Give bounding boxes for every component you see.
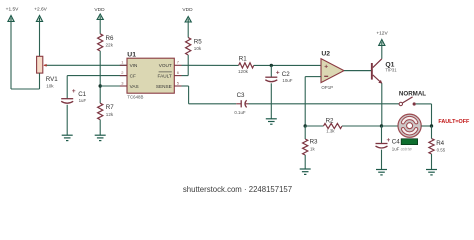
wire C1 to ground	[66, 105, 68, 135]
pin 7 VOUT stub	[174, 64, 181, 66]
capacitor C2	[265, 76, 277, 78]
wire U2 inverting input	[305, 76, 321, 78]
capacitor C3	[236, 103, 241, 105]
svg-text:VDD: VDD	[94, 7, 105, 13]
node R2/R3 junction	[304, 124, 307, 127]
svg-text:0.55: 0.55	[437, 148, 446, 153]
svg-text:U2: U2	[321, 50, 330, 57]
svg-text:R4: R4	[436, 140, 444, 147]
wire R2 to emitter node	[342, 125, 382, 127]
wire Q1 emitter down	[381, 83, 383, 126]
wire R5 to FAULT	[187, 55, 189, 76]
svg-text:TC648B: TC648B	[127, 95, 143, 100]
resistor R5	[186, 38, 191, 56]
svg-text:shutterstock.com · 2248157157: shutterstock.com · 2248157157	[183, 185, 292, 194]
wire node to R2	[305, 125, 323, 127]
svg-text:RV1: RV1	[46, 76, 58, 83]
power flag VDD (left)	[97, 14, 103, 20]
wire VOUT to R1	[182, 64, 239, 66]
pin 6 FAULT stub	[174, 75, 181, 77]
wire SENSE routing	[182, 85, 189, 87]
svg-text:FAULT: FAULT	[158, 74, 172, 79]
svg-text:+: +	[324, 63, 328, 70]
wire +12V to Q1 collector	[381, 46, 383, 59]
svg-text:120k: 120k	[238, 69, 249, 74]
svg-text:+: +	[72, 88, 76, 95]
svg-text:SENSE: SENSE	[156, 84, 172, 89]
svg-text:U1: U1	[127, 51, 136, 58]
wire motor left	[382, 125, 398, 127]
wire VDD to R5	[187, 22, 189, 38]
svg-text:TIP31: TIP31	[385, 68, 397, 73]
svg-text:10uF: 10uF	[282, 78, 292, 83]
svg-text:1uF: 1uF	[79, 98, 87, 103]
op-amp minus sign	[324, 75, 328, 77]
svg-text:NORMAL: NORMAL	[399, 90, 426, 97]
op-amp U2 body	[321, 59, 344, 83]
switch contact left	[399, 102, 402, 105]
svg-text:C1: C1	[78, 91, 86, 98]
svg-text:R7: R7	[106, 104, 114, 111]
pin 3 VAS stub	[120, 85, 127, 87]
svg-text:C3: C3	[237, 92, 245, 99]
wire switch to corner	[416, 103, 432, 105]
wire RV1 bottom	[39, 73, 41, 89]
svg-text:0.1uF: 0.1uF	[234, 110, 246, 115]
wire C3 to switch	[249, 103, 400, 105]
switch contact right	[413, 102, 416, 105]
svg-text:VIN: VIN	[130, 63, 138, 68]
svg-text:12k: 12k	[106, 112, 114, 117]
wire C4 stem	[381, 126, 383, 144]
svg-text:R3: R3	[310, 139, 318, 146]
pin 2 CF stub	[120, 75, 127, 77]
power flag +2.6V	[36, 16, 42, 22]
transistor Q1	[371, 63, 373, 80]
svg-text:R2: R2	[326, 118, 334, 125]
capacitor C1	[61, 98, 73, 100]
capacitor C4	[376, 143, 388, 145]
svg-text:FAULT=OFF: FAULT=OFF	[438, 119, 470, 125]
svg-text:ustrtw: ustrtw	[401, 146, 413, 151]
svg-text:1k: 1k	[310, 147, 315, 152]
ground R7	[95, 134, 106, 136]
pin 1 VIN stub	[120, 64, 127, 66]
svg-text:+: +	[387, 137, 391, 144]
potentiometer RV1 body	[37, 56, 43, 73]
node C2 junction	[270, 64, 273, 67]
svg-text:VAS: VAS	[130, 84, 139, 89]
resistor R2	[324, 123, 343, 128]
svg-text:R1: R1	[239, 56, 247, 63]
wire VDD to R6	[99, 20, 101, 34]
potentiometer RV1 wiper	[43, 64, 46, 67]
op U1 body	[127, 58, 174, 93]
svg-text:R6: R6	[106, 35, 114, 42]
resistor R3	[303, 139, 308, 155]
svg-text:+12V: +12V	[376, 31, 388, 37]
resistor R6	[98, 34, 103, 51]
wire R6 to node VAS	[99, 51, 101, 103]
node motor right junction	[430, 124, 433, 127]
power flag +12V	[379, 40, 385, 46]
svg-text:CF: CF	[130, 74, 136, 79]
motor fan M1	[398, 114, 421, 137]
svg-text:10k: 10k	[194, 46, 202, 51]
wire R3 leads	[304, 126, 306, 139]
svg-text:VOUT: VOUT	[159, 63, 172, 68]
switch lever	[402, 97, 412, 103]
svg-text:1uF: 1uF	[392, 146, 400, 151]
svg-text:+: +	[276, 69, 280, 76]
wire bottom-left horizontal	[11, 88, 40, 90]
resistor R1	[239, 63, 254, 68]
wire R7 to ground	[99, 120, 101, 136]
wire R1 to U2 +	[254, 64, 321, 66]
wire C2 to ground	[270, 83, 272, 119]
node R6/R7/VAS junction	[99, 84, 102, 87]
ground C2	[266, 118, 277, 120]
power flag VDD (right)	[185, 17, 191, 23]
svg-text:VDD: VDD	[182, 7, 193, 13]
ground R3	[300, 168, 311, 170]
pin 5 SENSE stub	[174, 85, 181, 87]
resistor R4	[429, 139, 434, 155]
svg-text:OP1P: OP1P	[321, 85, 333, 90]
wire U2 output	[344, 70, 371, 72]
wire C2 stem	[270, 65, 272, 77]
svg-text:10k: 10k	[46, 84, 54, 89]
wire U1 CF to C1	[67, 75, 127, 77]
ground C4	[376, 169, 387, 171]
wire C4 to ground	[381, 150, 383, 170]
svg-text:R5: R5	[194, 39, 202, 46]
svg-text:+2.6V: +2.6V	[34, 7, 47, 13]
wire R4 leads	[431, 126, 433, 139]
svg-text:+1.5V: +1.5V	[6, 7, 19, 13]
svg-text:1.3k: 1.3k	[326, 129, 335, 134]
resistor R7	[98, 103, 103, 120]
wire RV1 wiper to U1 VIN	[47, 64, 127, 66]
ground C1	[62, 134, 73, 136]
wire VAS pin	[100, 85, 127, 87]
power flag +1.5V	[8, 16, 14, 22]
wire motor right	[421, 125, 431, 127]
svg-text:C4: C4	[392, 139, 400, 146]
ground R4	[426, 169, 437, 171]
wire +1.5V stem	[10, 22, 12, 90]
wire +2.6V stem	[39, 22, 41, 57]
node emitter/R2/C4/motor junction	[380, 124, 383, 127]
wire Q1 base	[344, 70, 371, 72]
svg-text:22k: 22k	[106, 43, 114, 48]
